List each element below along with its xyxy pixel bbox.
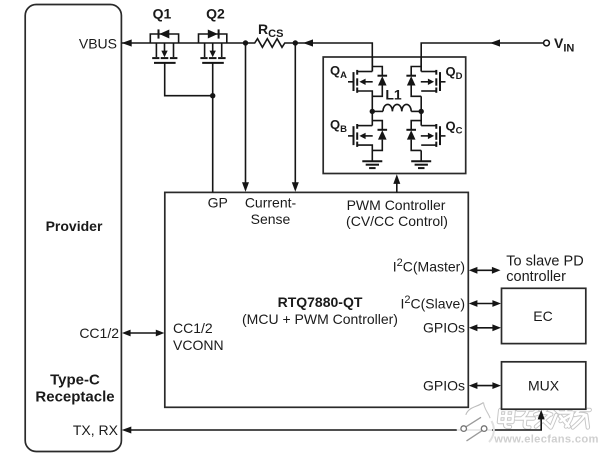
- svg-text:Q2: Q2: [206, 6, 225, 22]
- svg-text:Receptacle: Receptacle: [35, 389, 114, 406]
- wire current-sense right: [292, 43, 299, 192]
- label Q2: [206, 6, 225, 22]
- svg-text:GPIOs: GPIOs: [423, 378, 465, 394]
- svg-text:TX, RX: TX, RX: [73, 422, 119, 438]
- watermark chinese characters: [498, 406, 590, 428]
- svg-text:Current-: Current-: [245, 195, 297, 211]
- pin label TX, RX: [73, 422, 119, 438]
- transistor QA: [348, 57, 387, 111]
- pin label GPIOs (EC): [423, 320, 465, 336]
- wire Q2 gate down to GP pin: [212, 63, 214, 193]
- label EC: [533, 308, 552, 324]
- wire TX,RX to MUX: [122, 410, 545, 434]
- wire GPIOs-MUX double arrow: [469, 382, 501, 389]
- pin label I2C(Master): [393, 257, 465, 275]
- pin label GP: [208, 195, 228, 211]
- pin label VBUS: [79, 36, 117, 52]
- pin label PWM Controller: [347, 197, 446, 213]
- svg-text:Q1: Q1: [153, 6, 172, 22]
- node gate junction: [210, 93, 215, 98]
- arrowhead on VIN rail pointing left: [490, 39, 500, 46]
- label VIN: [554, 35, 574, 55]
- watermark www.elecfans.com: [493, 434, 599, 446]
- svg-text:To slave PD: To slave PD: [506, 254, 583, 270]
- svg-text:CC1/2: CC1/2: [79, 325, 119, 341]
- wire Q1 gate to GP: [165, 63, 213, 96]
- label QD: [446, 64, 463, 82]
- transistor QD: [406, 57, 445, 111]
- ground (QC source): [411, 161, 431, 168]
- node left bridge midpoint: [370, 109, 375, 114]
- svg-text:EC: EC: [533, 308, 552, 324]
- MUX block: [502, 362, 586, 409]
- svg-text:controller: controller: [506, 269, 566, 285]
- pin label Current-: [245, 195, 297, 211]
- svg-text:RTQ7880-QT: RTQ7880-QT: [278, 294, 363, 310]
- label controller: [506, 269, 566, 285]
- svg-text:VBUS: VBUS: [79, 36, 117, 52]
- transistor QC: [406, 111, 445, 161]
- node right bridge midpoint: [419, 109, 424, 114]
- label Receptacle: [35, 389, 114, 406]
- wire I2C(Master) double arrow: [469, 267, 501, 274]
- wire CC1/2 double arrow: [122, 330, 164, 337]
- svg-text:Provider: Provider: [46, 218, 103, 234]
- label QC: [446, 119, 463, 137]
- VIN terminal circle: [544, 40, 550, 46]
- wire bridge to PWM controller: [393, 174, 400, 192]
- EC block: [502, 288, 586, 343]
- label RTQ7880-QT: [278, 294, 363, 310]
- svg-text:PWM Controller: PWM Controller: [347, 197, 446, 213]
- label MUX: [528, 378, 560, 394]
- transistor QB: [348, 111, 387, 161]
- full-bridge converter block: [323, 57, 466, 174]
- wire current-sense left: [242, 43, 249, 192]
- svg-text:(MCU + PWM Controller): (MCU + PWM Controller): [242, 311, 398, 327]
- label (MCU + PWM Controller): [242, 311, 398, 327]
- svg-text:I2C(Master): I2C(Master): [393, 257, 465, 275]
- label Provider: [46, 218, 103, 234]
- wire VBUS rail (receptacle to left bridge leg): [122, 39, 373, 71]
- svg-text:(CV/CC Control): (CV/CC Control): [346, 213, 448, 229]
- pin label CC1/2 (controller): [173, 320, 213, 336]
- svg-text:GPIOs: GPIOs: [423, 320, 465, 336]
- transistor Q1: [150, 29, 178, 63]
- pin label Sense: [251, 211, 291, 227]
- pin label GPIOs (MUX): [423, 378, 465, 394]
- label RCS: [258, 21, 283, 40]
- transistor Q2: [199, 29, 227, 63]
- svg-text:GP: GP: [208, 195, 228, 211]
- svg-text:Sense: Sense: [251, 211, 291, 227]
- wire GPIOs-EC double arrow: [469, 324, 501, 331]
- ground (QB source): [362, 161, 382, 168]
- svg-text:L1: L1: [385, 87, 402, 103]
- node junction before RCS: [243, 40, 248, 45]
- svg-text:CC1/2: CC1/2: [173, 320, 213, 336]
- RTQ7880-QT main controller block: [165, 192, 469, 407]
- arrowhead on VBUS rail pointing left: [303, 39, 313, 46]
- wire VIN rail (right bridge leg to VIN terminal): [421, 43, 543, 72]
- watermark logo circle: [457, 403, 494, 447]
- svg-text:VCONN: VCONN: [173, 337, 224, 353]
- svg-text:MUX: MUX: [528, 378, 560, 394]
- pin label I2C(Slave): [401, 294, 465, 312]
- label To slave PD: [506, 254, 583, 270]
- pin label VCONN: [173, 337, 224, 353]
- resistor RCS: [246, 39, 296, 48]
- label QB: [330, 117, 347, 135]
- pin label CC1/2 (receptacle): [79, 325, 119, 341]
- label L1: [385, 87, 402, 103]
- svg-text:Type-C: Type-C: [50, 372, 100, 389]
- Type-C Receptacle block: [25, 5, 121, 452]
- label QA: [330, 63, 347, 81]
- inductor L1: [372, 104, 421, 111]
- label Type-C: [50, 372, 100, 389]
- svg-text:www.elecfans.com: www.elecfans.com: [493, 434, 599, 446]
- pin label (CV/CC Control): [346, 213, 448, 229]
- svg-text:I2C(Slave): I2C(Slave): [401, 294, 465, 312]
- node junction after RCS: [293, 40, 298, 45]
- wire I2C(Slave) double arrow: [469, 300, 501, 307]
- label Q1: [153, 6, 172, 22]
